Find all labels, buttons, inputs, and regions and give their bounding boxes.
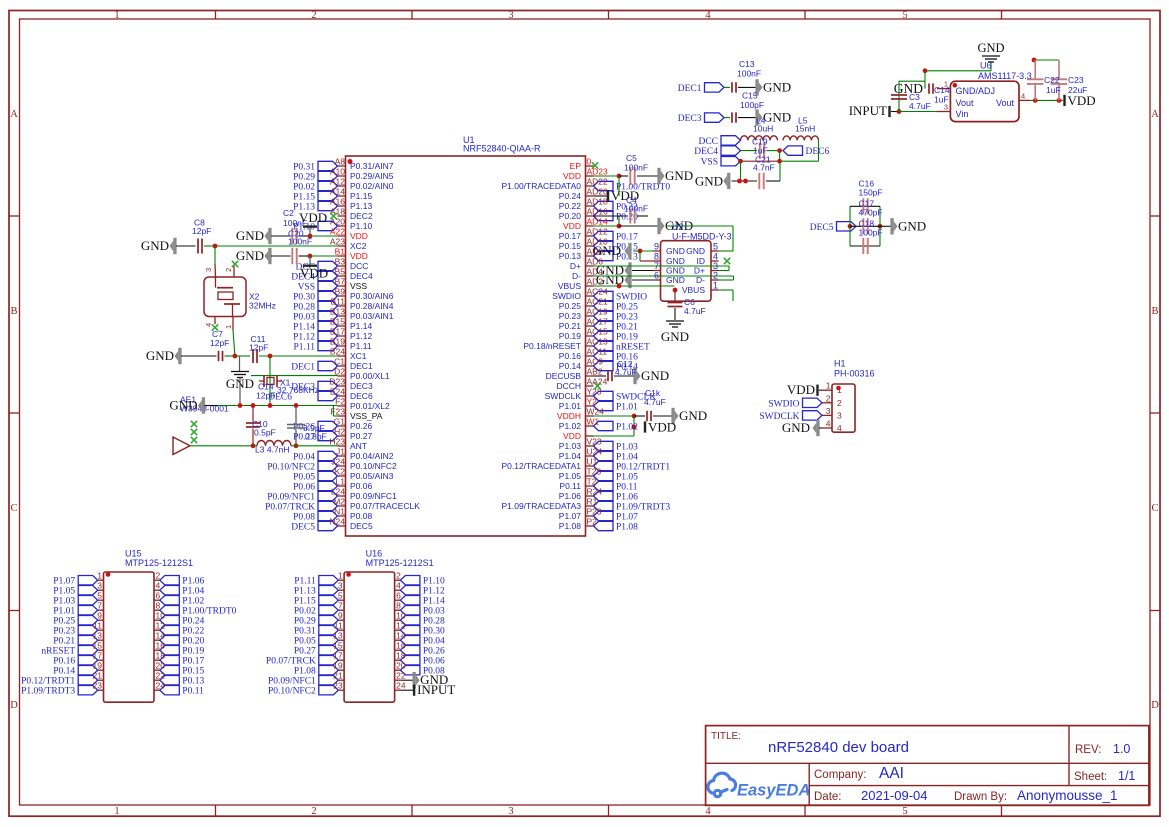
svg-text:G1: G1	[334, 417, 346, 427]
svg-text:GND/ADJ: GND/ADJ	[956, 86, 996, 96]
svg-text:GND: GND	[695, 174, 723, 189]
svg-text:GND: GND	[169, 398, 197, 413]
svg-text:P0.19: P0.19	[616, 333, 638, 343]
svg-text:P0.02: P0.02	[294, 607, 316, 617]
svg-text:P0.31/AIN7: P0.31/AIN7	[350, 161, 394, 171]
svg-text:4.7uF: 4.7uF	[644, 397, 666, 407]
svg-text:GND: GND	[666, 246, 685, 256]
svg-text:A10: A10	[330, 167, 345, 177]
svg-text:6: 6	[156, 591, 161, 601]
svg-text:P0.03/AIN1: P0.03/AIN1	[350, 311, 394, 321]
svg-text:P1.04: P1.04	[182, 587, 204, 597]
svg-text:A: A	[10, 109, 18, 120]
svg-text:20: 20	[396, 661, 406, 671]
svg-text:P1.15: P1.15	[350, 191, 372, 201]
svg-text:C15: C15	[742, 91, 758, 101]
svg-text:nRESET: nRESET	[41, 647, 75, 657]
svg-text:P0.00/XL1: P0.00/XL1	[350, 371, 390, 381]
svg-text:Date:: Date:	[814, 791, 842, 803]
svg-text:P1.02: P1.02	[182, 597, 204, 607]
svg-text:DEC2: DEC2	[350, 211, 373, 221]
svg-text:H2: H2	[334, 427, 345, 437]
svg-text:P0.05/AIN3: P0.05/AIN3	[350, 471, 394, 481]
svg-text:32.768KHz: 32.768KHz	[277, 385, 319, 395]
svg-text:4: 4	[1021, 92, 1025, 101]
svg-text:NRF52840-QIAA-R: NRF52840-QIAA-R	[463, 144, 541, 154]
svg-text:24: 24	[156, 681, 166, 691]
svg-text:P1.10: P1.10	[350, 221, 372, 231]
svg-text:T2: T2	[587, 477, 597, 487]
svg-text:P0.15: P0.15	[559, 241, 581, 251]
svg-text:ANT: ANT	[350, 441, 367, 451]
svg-text:P0.28: P0.28	[423, 617, 445, 627]
svg-text:XC1: XC1	[350, 351, 367, 361]
svg-text:DEC5: DEC5	[810, 223, 834, 233]
svg-text:DECUSB: DECUSB	[546, 371, 582, 381]
svg-text:P0.25: P0.25	[616, 303, 638, 313]
svg-text:8: 8	[156, 601, 161, 611]
svg-text:GND: GND	[665, 168, 693, 183]
svg-text:4: 4	[837, 423, 842, 433]
svg-text:11: 11	[334, 621, 343, 631]
svg-text:P0.21: P0.21	[616, 323, 638, 333]
svg-text:L1: L1	[336, 477, 346, 487]
svg-text:P1.06: P1.06	[559, 491, 581, 501]
svg-text:P0.04/AIN2: P0.04/AIN2	[350, 451, 394, 461]
svg-text:P0.17: P0.17	[616, 233, 638, 243]
svg-text:P1.04: P1.04	[559, 451, 581, 461]
svg-text:E24: E24	[330, 387, 345, 397]
svg-text:P0.10/NFC2: P0.10/NFC2	[350, 461, 397, 471]
svg-text:C: C	[10, 503, 17, 514]
svg-text:P1.01: P1.01	[559, 401, 581, 411]
svg-text:3: 3	[508, 10, 513, 21]
svg-text:P0.25: P0.25	[53, 617, 75, 627]
svg-text:18: 18	[396, 651, 406, 661]
svg-text:U2: U2	[672, 222, 684, 232]
svg-text:VSS: VSS	[701, 158, 718, 168]
svg-text:B17: B17	[330, 327, 345, 337]
svg-text:3: 3	[204, 268, 213, 272]
svg-text:4: 4	[156, 581, 161, 591]
svg-text:D+: D+	[694, 266, 705, 276]
svg-text:12pF: 12pF	[210, 338, 229, 348]
svg-text:VBUS: VBUS	[682, 285, 705, 295]
svg-text:22uF: 22uF	[1068, 85, 1087, 95]
svg-text:VDD: VDD	[787, 382, 815, 397]
svg-text:24: 24	[396, 681, 406, 691]
svg-text:GND: GND	[141, 238, 169, 253]
svg-text:P1.09/TRDT3: P1.09/TRDT3	[616, 503, 670, 513]
svg-text:C14: C14	[934, 85, 950, 95]
svg-text:GND: GND	[666, 256, 685, 266]
svg-text:21: 21	[93, 671, 103, 681]
svg-text:5: 5	[902, 806, 907, 817]
svg-text:P0.30: P0.30	[423, 627, 445, 637]
svg-text:1uF: 1uF	[1046, 85, 1061, 95]
svg-text:R1: R1	[587, 497, 598, 507]
svg-text:VBUS: VBUS	[558, 281, 581, 291]
svg-text:100pF: 100pF	[740, 100, 764, 110]
svg-text:U6: U6	[980, 61, 992, 71]
svg-text:P1.12: P1.12	[350, 331, 372, 341]
svg-text:C22: C22	[1044, 75, 1060, 85]
svg-text:P1.01: P1.01	[53, 607, 75, 617]
svg-text:P0.29: P0.29	[293, 173, 315, 183]
svg-text:P1.05: P1.05	[53, 587, 75, 597]
svg-text:P0.07/TRACECLK: P0.07/TRACECLK	[350, 501, 420, 511]
svg-text:AC13: AC13	[587, 337, 609, 347]
svg-text:DEC5: DEC5	[350, 521, 373, 531]
svg-text:P1.00/TRACEDATA0: P1.00/TRACEDATA0	[501, 181, 581, 191]
svg-text:P0.24: P0.24	[182, 617, 204, 627]
svg-text:T23: T23	[587, 467, 602, 477]
svg-text:12pF: 12pF	[256, 391, 275, 401]
svg-text:Anonymousse_1: Anonymousse_1	[1017, 788, 1118, 803]
svg-text:100nF: 100nF	[624, 204, 648, 214]
svg-text:9: 9	[654, 242, 659, 252]
svg-text:1: 1	[97, 571, 102, 581]
svg-text:U24: U24	[587, 447, 603, 457]
svg-text:15nH: 15nH	[795, 124, 815, 134]
svg-text:DEC5: DEC5	[291, 523, 315, 533]
svg-text:A8: A8	[335, 157, 346, 167]
svg-text:5: 5	[713, 242, 718, 252]
svg-text:AD18: AD18	[587, 197, 609, 207]
svg-text:GND: GND	[782, 420, 810, 435]
svg-text:B15: B15	[330, 317, 345, 327]
svg-text:GND: GND	[763, 79, 791, 94]
svg-text:9: 9	[338, 611, 343, 621]
svg-text:3: 3	[826, 406, 831, 416]
svg-text:P1.03: P1.03	[53, 597, 75, 607]
svg-text:B5: B5	[335, 267, 346, 277]
svg-text:1: 1	[224, 325, 233, 329]
svg-text:VDD: VDD	[1068, 93, 1096, 108]
svg-text:B19: B19	[330, 337, 345, 347]
svg-text:P0.08: P0.08	[350, 511, 372, 521]
svg-text:14: 14	[156, 631, 166, 641]
svg-text:P0.11: P0.11	[616, 483, 638, 493]
svg-text:C1: C1	[334, 357, 345, 367]
svg-text:P0.22: P0.22	[559, 201, 581, 211]
svg-text:A14: A14	[330, 187, 345, 197]
svg-text:100nF: 100nF	[737, 69, 761, 79]
svg-text:SWDCLK: SWDCLK	[545, 391, 582, 401]
svg-text:GND: GND	[236, 248, 264, 263]
svg-text:GND: GND	[977, 41, 1004, 55]
svg-text:P0.02/AIN0: P0.02/AIN0	[350, 181, 394, 191]
svg-text:C23: C23	[1068, 75, 1084, 85]
svg-text:nRESET: nRESET	[616, 343, 650, 353]
svg-text:10: 10	[396, 611, 406, 621]
svg-text:P0.20: P0.20	[559, 211, 581, 221]
svg-text:P0.11: P0.11	[559, 481, 581, 491]
svg-text:A12: A12	[330, 177, 345, 187]
svg-text:P0.21: P0.21	[53, 637, 75, 647]
svg-text:REV:: REV:	[1075, 744, 1101, 756]
svg-text:P0.09/NFC1: P0.09/NFC1	[268, 677, 316, 687]
svg-text:12pF: 12pF	[249, 343, 268, 353]
svg-text:4: 4	[705, 10, 711, 21]
svg-text:P0.13: P0.13	[559, 251, 581, 261]
svg-text:16: 16	[396, 641, 406, 651]
svg-text:D2: D2	[334, 367, 345, 377]
svg-text:TITLE:: TITLE:	[711, 731, 741, 742]
svg-text:2: 2	[311, 10, 316, 21]
svg-text:1: 1	[713, 281, 718, 291]
svg-text:12: 12	[156, 621, 166, 631]
svg-text:P1.13: P1.13	[350, 201, 372, 211]
svg-text:P1.07: P1.07	[616, 513, 638, 523]
svg-text:P0.05: P0.05	[293, 473, 315, 483]
svg-text:Sheet:: Sheet:	[1074, 771, 1107, 783]
svg-text:AD22: AD22	[587, 177, 609, 187]
svg-text:1.0: 1.0	[1113, 742, 1130, 756]
svg-text:19: 19	[333, 661, 343, 671]
svg-text:VSS_PA: VSS_PA	[350, 411, 383, 421]
svg-text:2: 2	[396, 571, 401, 581]
svg-text:nRF52840 dev board: nRF52840 dev board	[768, 739, 909, 756]
svg-text:B11: B11	[331, 297, 346, 307]
svg-text:B: B	[1151, 306, 1158, 317]
svg-text:AC11: AC11	[587, 347, 608, 357]
svg-text:A: A	[1151, 109, 1159, 120]
svg-text:14: 14	[396, 631, 406, 641]
svg-text:P0.08: P0.08	[293, 513, 315, 523]
svg-text:Y2: Y2	[587, 397, 598, 407]
svg-text:P1.14: P1.14	[293, 323, 315, 333]
svg-text:V23: V23	[587, 437, 602, 447]
svg-text:DEC1: DEC1	[350, 361, 373, 371]
svg-text:0: 0	[587, 157, 592, 167]
svg-text:P23: P23	[587, 507, 602, 517]
svg-text:Vout: Vout	[996, 98, 1015, 108]
svg-text:B1: B1	[335, 247, 346, 257]
svg-text:15: 15	[333, 641, 343, 651]
svg-text:P0.29/AIN5: P0.29/AIN5	[350, 171, 394, 181]
svg-text:4.7uF: 4.7uF	[684, 306, 706, 316]
svg-text:SWDIO: SWDIO	[616, 293, 647, 303]
svg-text:DEC6: DEC6	[806, 147, 830, 157]
svg-text:P0.26: P0.26	[350, 421, 372, 431]
svg-text:4.7uF: 4.7uF	[909, 101, 931, 111]
svg-text:AC9: AC9	[587, 357, 604, 367]
svg-text:DCC: DCC	[698, 137, 718, 147]
svg-text:8: 8	[396, 601, 401, 611]
svg-text:A23: A23	[330, 237, 345, 247]
svg-text:H1: H1	[834, 359, 846, 369]
svg-text:XC2: XC2	[350, 241, 367, 251]
svg-text:P1.04: P1.04	[616, 453, 638, 463]
svg-text:P0.21: P0.21	[559, 321, 581, 331]
svg-text:P0.31: P0.31	[294, 627, 316, 637]
svg-text:P0.10/NFC2: P0.10/NFC2	[268, 687, 316, 697]
svg-text:L24: L24	[331, 487, 345, 497]
svg-text:P0.23: P0.23	[559, 311, 581, 321]
svg-text:P1.14: P1.14	[423, 597, 445, 607]
svg-text:P0.22: P0.22	[182, 627, 204, 637]
svg-text:B13: B13	[330, 307, 345, 317]
svg-text:Vin: Vin	[956, 109, 969, 119]
svg-text:P0.09/NFC1: P0.09/NFC1	[267, 493, 315, 503]
svg-text:SWDIO: SWDIO	[552, 291, 581, 301]
svg-text:C2: C2	[283, 208, 294, 218]
svg-text:P1.14: P1.14	[350, 321, 372, 331]
svg-text:P1.05: P1.05	[559, 471, 581, 481]
svg-text:B9: B9	[335, 287, 346, 297]
svg-text:3: 3	[338, 581, 343, 591]
svg-text:AC19: AC19	[587, 307, 609, 317]
svg-text:B3: B3	[335, 257, 346, 267]
svg-text:P0.28: P0.28	[293, 303, 315, 313]
svg-text:5: 5	[97, 591, 102, 601]
svg-text:A16: A16	[330, 197, 345, 207]
svg-text:P0.12/TRDT1: P0.12/TRDT1	[616, 463, 670, 473]
svg-text:P0.06: P0.06	[293, 483, 315, 493]
svg-text:P1.02: P1.02	[616, 423, 638, 433]
svg-text:P1.01: P1.01	[616, 403, 638, 413]
svg-text:P0.24: P0.24	[559, 191, 581, 201]
svg-text:1uF: 1uF	[934, 95, 949, 105]
svg-text:P2: P2	[587, 517, 598, 527]
svg-text:100nF: 100nF	[288, 237, 312, 247]
svg-text:22: 22	[396, 671, 406, 681]
svg-text:P0.01/XL2: P0.01/XL2	[350, 401, 390, 411]
svg-text:P0.20: P0.20	[182, 637, 204, 647]
svg-text:P0.25: P0.25	[559, 301, 581, 311]
svg-text:MTP125-1212S1: MTP125-1212S1	[125, 558, 193, 568]
svg-text:P1.07: P1.07	[53, 577, 75, 587]
svg-text:32MHz: 32MHz	[249, 301, 276, 311]
svg-text:AD14: AD14	[587, 217, 609, 227]
svg-text:ID: ID	[697, 256, 706, 266]
svg-text:P1.06: P1.06	[182, 577, 204, 587]
svg-text:DEC6: DEC6	[350, 391, 373, 401]
svg-text:8: 8	[654, 252, 659, 262]
svg-text:J1: J1	[336, 447, 345, 457]
svg-text:GND: GND	[763, 110, 791, 125]
svg-text:2: 2	[156, 571, 161, 581]
svg-text:6: 6	[396, 591, 401, 601]
svg-text:AC15: AC15	[587, 327, 609, 337]
svg-text:P0.14: P0.14	[559, 361, 581, 371]
svg-text:P1.03: P1.03	[559, 441, 581, 451]
svg-text:P0.23: P0.23	[616, 313, 638, 323]
svg-text:U1: U1	[587, 457, 598, 467]
svg-text:P1.11: P1.11	[293, 343, 315, 353]
svg-text:P1.12: P1.12	[423, 587, 445, 597]
svg-text:16: 16	[156, 641, 166, 651]
svg-text:AC24: AC24	[587, 287, 609, 297]
svg-text:5: 5	[338, 591, 343, 601]
svg-text:20: 20	[156, 661, 166, 671]
svg-text:VDD: VDD	[563, 221, 581, 231]
svg-text:VDD: VDD	[563, 171, 581, 181]
svg-text:2: 2	[224, 268, 233, 272]
svg-text:P1.06: P1.06	[616, 493, 638, 503]
svg-text:2: 2	[837, 398, 842, 408]
svg-text:A22: A22	[330, 227, 345, 237]
svg-text:P1.03: P1.03	[616, 443, 638, 453]
svg-text:GND: GND	[146, 348, 174, 363]
svg-text:C: C	[1151, 503, 1158, 514]
svg-text:P0.05: P0.05	[294, 637, 316, 647]
svg-text:P0.12/TRACEDATA1: P0.12/TRACEDATA1	[501, 461, 581, 471]
svg-text:P0.18/nRESET: P0.18/nRESET	[523, 341, 581, 351]
svg-text:4: 4	[713, 252, 718, 262]
svg-text:P1.08: P1.08	[294, 667, 316, 677]
svg-text:AD12: AD12	[587, 227, 609, 237]
svg-text:23: 23	[93, 681, 103, 691]
svg-text:1: 1	[114, 10, 119, 21]
svg-text:13: 13	[333, 631, 343, 641]
svg-text:VDD: VDD	[299, 210, 327, 225]
svg-text:2021-09-04: 2021-09-04	[861, 788, 928, 803]
svg-text:AC21: AC21	[587, 297, 609, 307]
svg-text:P0.27: P0.27	[350, 431, 372, 441]
svg-text:P0.17: P0.17	[559, 231, 581, 241]
svg-text:VDD: VDD	[563, 431, 581, 441]
svg-text:1: 1	[114, 806, 119, 817]
svg-text:DEC3: DEC3	[350, 381, 373, 391]
svg-text:P0.03: P0.03	[293, 313, 315, 323]
svg-text:4.7nF: 4.7nF	[753, 163, 775, 173]
svg-text:1: 1	[338, 571, 343, 581]
svg-text:W24: W24	[587, 407, 605, 417]
svg-text:AD20: AD20	[587, 187, 609, 197]
svg-text:P0.11: P0.11	[182, 687, 204, 697]
svg-text:15: 15	[93, 641, 103, 651]
svg-text:P0.31: P0.31	[293, 163, 315, 173]
svg-text:AB2: AB2	[587, 367, 603, 377]
svg-text:P1.09/TRDT3: P1.09/TRDT3	[21, 687, 75, 697]
svg-text:AD16: AD16	[587, 207, 609, 217]
svg-text:Company:: Company:	[814, 769, 866, 781]
svg-text:GND: GND	[661, 329, 689, 344]
svg-text:P0.30: P0.30	[293, 293, 315, 303]
svg-text:21: 21	[333, 671, 343, 681]
svg-text:P0.15: P0.15	[182, 667, 204, 677]
svg-text:INPUT: INPUT	[417, 682, 455, 697]
svg-text:D: D	[1151, 700, 1159, 711]
svg-text:GND: GND	[679, 408, 707, 423]
svg-text:DEC1: DEC1	[291, 363, 315, 373]
svg-text:DEC4: DEC4	[350, 271, 373, 281]
svg-text:VSS: VSS	[350, 281, 367, 291]
svg-text:3: 3	[508, 806, 513, 817]
svg-text:22: 22	[156, 671, 166, 681]
svg-text:D23: D23	[329, 377, 345, 387]
svg-text:P1.09/TRACEDATA3: P1.09/TRACEDATA3	[501, 501, 581, 511]
svg-text:P1.11: P1.11	[350, 341, 372, 351]
svg-text:P1.08: P1.08	[616, 523, 638, 533]
svg-text:P1.11: P1.11	[294, 577, 316, 587]
svg-text:10uH: 10uH	[753, 124, 773, 134]
svg-text:D+: D+	[570, 261, 581, 271]
svg-text:4: 4	[705, 806, 711, 817]
svg-text:GND: GND	[641, 368, 669, 383]
svg-text:4: 4	[396, 581, 401, 591]
svg-text:INPUT: INPUT	[849, 103, 887, 118]
svg-text:H23: H23	[329, 437, 345, 447]
svg-text:150pF: 150pF	[859, 187, 883, 197]
svg-text:7: 7	[338, 601, 343, 611]
svg-text:P0.27: P0.27	[294, 647, 316, 657]
svg-text:P0.12/TRDT1: P0.12/TRDT1	[21, 677, 75, 687]
svg-text:P1.00/TRDT0: P1.00/TRDT0	[182, 607, 236, 617]
svg-text:P0.26: P0.26	[423, 647, 445, 657]
